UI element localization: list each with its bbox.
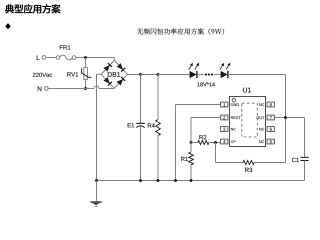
U1 pin 1 (GND) [221, 102, 239, 107]
node E1 top junction [139, 73, 142, 76]
diode bridge top-right [117, 63, 125, 72]
LED D1 [189, 63, 199, 78]
U1 pin 4 (CP) [221, 139, 236, 144]
node N terminal [38, 87, 48, 91]
wire E1 to R4 [141, 74, 159, 76]
resistor R4 [148, 75, 161, 181]
resistor R1 [181, 143, 193, 181]
node ground rail left junction [95, 179, 98, 182]
node R1 bottom junction [190, 179, 193, 182]
wire pin1 GND to ground rail [176, 105, 221, 181]
wire bridge left vertex to DC- drop [97, 74, 102, 180]
bullet diamond [5, 23, 10, 29]
wire bridge top stub [113, 58, 115, 61]
label 18V*14 [197, 82, 214, 86]
title 典型应用方案 [5, 4, 61, 13]
U1 pin 6 (NC) [259, 127, 274, 132]
wire R4 to LED1 [158, 74, 190, 76]
U1 pin-1 marker circle [232, 99, 235, 102]
node GND rail junction [174, 179, 177, 182]
diode bridge bottom-left [103, 77, 111, 86]
wire hop to bridge bottom [99, 88, 114, 90]
node R4 top junction [157, 73, 160, 76]
fuse FR1 [56, 45, 76, 59]
diode bridge bottom-right [117, 77, 125, 86]
wire pin2 REXT down [191, 118, 221, 143]
label 220Vac [33, 73, 52, 77]
varistor RV1 [67, 58, 91, 89]
wire L to fuse [46, 57, 56, 59]
ellipsis dots [205, 73, 213, 75]
node RV1 bottom junction [84, 87, 87, 90]
wire LED2 to top-right corner [228, 75, 286, 118]
wire fuse to bridge [76, 57, 114, 59]
wire LED1 to dots [197, 74, 204, 76]
ground symbol [90, 202, 101, 206]
capacitor C1 [292, 118, 309, 181]
wire ground stem [96, 181, 98, 203]
node E1 bottom junction [139, 179, 142, 182]
capacitor E1 [128, 75, 145, 181]
wire bridge right vertex to E1 [128, 74, 141, 76]
U1 pin 5 (NC) [259, 139, 274, 144]
resistor R2 [191, 135, 221, 145]
bridge rectifier DB1 [101, 60, 127, 88]
diode bridge top-left [103, 63, 111, 72]
subtitle 无频闪恒功率应用方案（9W） [137, 28, 224, 34]
ground rail [97, 180, 305, 182]
node R2/R3 junction [214, 141, 217, 144]
U1 pin 2 (REXT) [221, 115, 241, 120]
wire N to hop [48, 88, 94, 90]
U1 internal dashed block [242, 103, 257, 137]
node R4 bottom junction [157, 179, 160, 182]
node REXT/R1/R2 junction [190, 141, 193, 144]
wire pin7 OUT to C1 branch [274, 117, 304, 119]
wire dots to LED2 [214, 74, 220, 76]
wire hop over DC- line [94, 86, 99, 89]
node OUT junction [284, 116, 287, 119]
op-amp U1 body [230, 88, 266, 147]
node L terminal [37, 56, 46, 60]
node RV1 top junction [84, 56, 87, 59]
U1 pin 8 (NC) [259, 102, 274, 107]
LED D2 [220, 63, 230, 78]
resistor R3 [216, 118, 286, 173]
U1 pin 3 (NC) [221, 127, 236, 132]
U1 pin 7 (OUT) [257, 115, 275, 120]
